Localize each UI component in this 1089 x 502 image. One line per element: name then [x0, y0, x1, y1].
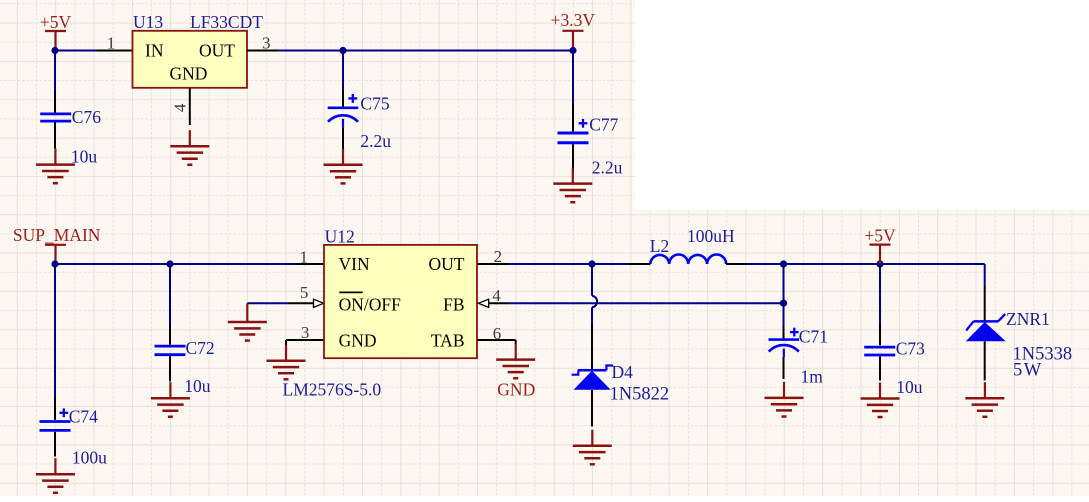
- junction at C75: [339, 47, 346, 54]
- ground at C76: [36, 149, 75, 184]
- capacitor C72: [169, 325, 171, 345]
- wire +5V rail corner to ZNR1: [984, 264, 986, 284]
- capacitor C75 (polarized): [342, 90, 344, 106]
- wire C72 drop: [169, 264, 171, 325]
- wire U12 FB line: [508, 302, 784, 304]
- svg-text:IN: IN: [145, 41, 164, 61]
- svg-text:2.2u: 2.2u: [360, 131, 391, 151]
- ground at C75: [324, 149, 363, 184]
- wire SUP_MAIN rail to U12 pin 1: [55, 263, 295, 265]
- ground at U13 pin 4: [170, 130, 209, 165]
- ground at C74: [36, 458, 75, 493]
- svg-text:10u: 10u: [184, 376, 211, 396]
- svg-text:VIN: VIN: [339, 254, 370, 274]
- U12 pin 1: [295, 263, 324, 265]
- wire U13 pin3 to +3.3V rail: [278, 50, 573, 52]
- svg-text:C76: C76: [72, 107, 101, 127]
- svg-text:LF33CDT: LF33CDT: [190, 12, 263, 32]
- svg-text:+5V: +5V: [864, 226, 896, 246]
- svg-text:1: 1: [300, 247, 309, 266]
- svg-text:OUT: OUT: [199, 41, 235, 61]
- ground at D4: [573, 430, 612, 465]
- svg-text:GND: GND: [339, 330, 377, 350]
- wire D4 drop with hop over FB: [591, 264, 593, 296]
- wire L2 to +5V rail: [746, 263, 985, 265]
- svg-text:4: 4: [492, 286, 501, 305]
- power port +5V (top): [45, 31, 66, 51]
- junction at C71 top: [780, 260, 787, 267]
- junction FB at C71: [780, 300, 787, 307]
- wire C77 drop: [572, 51, 574, 105]
- wire +5V to U13 pin 1: [55, 50, 97, 52]
- svg-text:OUT: OUT: [429, 254, 465, 274]
- capacitor C77 (polarized): [572, 104, 574, 131]
- U12 pin 3: [286, 339, 324, 341]
- capacitor C74 (polarized): [54, 398, 56, 420]
- svg-text:C73: C73: [896, 339, 925, 359]
- wire U12 OUT to L2: [507, 263, 629, 265]
- svg-text:U13: U13: [133, 12, 163, 32]
- svg-text:+3.3V: +3.3V: [551, 10, 596, 30]
- svg-text:2: 2: [494, 247, 503, 266]
- svg-text:2.2u: 2.2u: [592, 157, 623, 177]
- svg-text:1m: 1m: [801, 367, 824, 387]
- svg-text:ON/OFF: ON/OFF: [339, 294, 402, 314]
- wire ground to pin 5: [247, 302, 288, 304]
- wire C71 drop: [783, 264, 785, 327]
- U12 pin 6 (TAB): [477, 339, 516, 341]
- regulator U13 body: [133, 31, 248, 88]
- capacitor C71 (polarized): [783, 327, 785, 339]
- ground at U12 pin 5: [228, 306, 267, 341]
- svg-text:C77: C77: [589, 114, 618, 134]
- U13 pin 1: [97, 50, 133, 52]
- svg-text:3: 3: [301, 323, 310, 342]
- svg-text:C74: C74: [69, 407, 98, 427]
- capacitor C76: [40, 114, 71, 121]
- svg-text:C75: C75: [360, 93, 389, 113]
- svg-text:100u: 100u: [72, 448, 107, 468]
- svg-text:LM2576S-5.0: LM2576S-5.0: [283, 379, 382, 399]
- svg-text:GND: GND: [170, 64, 208, 84]
- U12 pin 5 with input arrow: [288, 302, 313, 304]
- inductor L2: [629, 263, 650, 265]
- junction at +3.3V / C77: [569, 47, 576, 54]
- U13 pin 3: [247, 50, 278, 52]
- svg-text:5: 5: [300, 283, 309, 302]
- svg-text:6: 6: [493, 324, 502, 343]
- white area outside sheet top-right: [635, 0, 1089, 210]
- U12 pin 4 with input arrow: [478, 299, 488, 307]
- svg-text:C72: C72: [186, 338, 215, 358]
- svg-text:+5V: +5V: [40, 12, 72, 32]
- svg-text:FB: FB: [443, 294, 464, 314]
- schottky diode D4: [591, 325, 593, 369]
- ground at C73: [861, 383, 900, 418]
- junction at D4: [588, 260, 595, 267]
- zener diode ZNR1: [984, 284, 986, 320]
- wire C73 drop: [879, 264, 881, 325]
- U13 pin 4: [189, 88, 191, 125]
- svg-text:D4: D4: [612, 362, 634, 382]
- junction at +5V / C73: [876, 260, 883, 267]
- ground at U12 pin 6: [496, 344, 535, 379]
- svg-text:100uH: 100uH: [687, 226, 735, 246]
- svg-text:10u: 10u: [896, 377, 923, 397]
- ground at C72: [151, 382, 190, 417]
- U12 pin 2: [477, 263, 507, 265]
- capacitor C73: [879, 325, 881, 346]
- white strip below sheet: [0, 496, 1089, 502]
- junction at +5V / C76: [51, 47, 58, 54]
- power port +5V (bottom): [870, 245, 891, 264]
- junction at SUP_MAIN: [51, 260, 58, 267]
- ground at ZNR1: [965, 382, 1004, 417]
- switching regulator U12 body: [324, 245, 477, 358]
- svg-text:3: 3: [262, 33, 271, 52]
- svg-text:4: 4: [171, 103, 190, 112]
- wire C76 drop: [54, 51, 56, 92]
- wire C75 drop: [342, 51, 344, 91]
- wire C74 drop: [54, 264, 56, 398]
- svg-text:ZNR1: ZNR1: [1006, 309, 1050, 329]
- svg-text:1: 1: [107, 33, 116, 52]
- svg-text:U12: U12: [325, 226, 355, 246]
- svg-text:TAB: TAB: [431, 330, 465, 350]
- svg-text:1N5822: 1N5822: [610, 384, 670, 404]
- junction at C72: [166, 260, 173, 267]
- svg-text:C71: C71: [799, 326, 828, 346]
- power port SUP_MAIN: [45, 245, 66, 264]
- ground at U12 pin 3: [267, 345, 306, 380]
- power port +3.3V: [563, 31, 584, 51]
- svg-text:5W: 5W: [1013, 361, 1043, 381]
- svg-text:GND: GND: [497, 380, 535, 400]
- svg-text:L2: L2: [650, 236, 669, 256]
- ground at C71: [765, 382, 804, 417]
- svg-text:SUP_MAIN: SUP_MAIN: [13, 225, 101, 245]
- ground at C77: [553, 168, 592, 203]
